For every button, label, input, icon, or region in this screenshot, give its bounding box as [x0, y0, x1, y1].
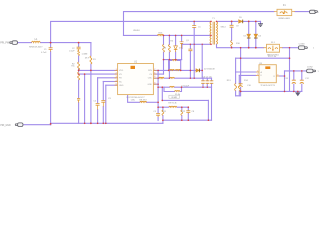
svg-text:C? 10uF: C? 10uF — [181, 86, 190, 88]
svg-text:8: 8 — [154, 76, 155, 78]
svg-text:CON3: CON3 — [299, 43, 306, 45]
svg-text:1: 1 — [318, 12, 320, 14]
svg-text:C4: C4 — [93, 101, 97, 103]
svg-text:XFMR: XFMR — [171, 97, 177, 99]
svg-text:CON2: CON2 — [307, 66, 314, 68]
svg-text:C3: C3 — [108, 98, 112, 100]
svg-text:R11: R11 — [162, 111, 167, 113]
svg-text:FL1: FL1 — [271, 42, 276, 44]
svg-text:PRI_GND: PRI_GND — [0, 125, 11, 127]
svg-text:D2 1N4148: D2 1N4148 — [204, 69, 215, 71]
svg-text:C12: C12 — [305, 78, 310, 80]
svg-text:SS14: SS14 — [220, 27, 226, 29]
svg-text:C10: C10 — [247, 85, 252, 87]
svg-text:1: 1 — [116, 69, 117, 71]
svg-text:C5: C5 — [198, 26, 201, 28]
svg-text:MH2029-301Y: MH2029-301Y — [29, 47, 43, 49]
svg-text:R4: R4 — [170, 41, 174, 43]
svg-text:C2: C2 — [72, 48, 76, 50]
svg-text:0.1uF: 0.1uF — [69, 51, 75, 53]
svg-text:9: 9 — [154, 83, 155, 85]
svg-text:GND: GND — [148, 84, 153, 86]
svg-text:95.3k: 95.3k — [175, 94, 181, 96]
svg-text:VBULK: VBULK — [133, 30, 140, 32]
svg-text:4.7uF: 4.7uF — [41, 52, 47, 54]
svg-text:GND: GND — [119, 85, 124, 87]
svg-text:R3: R3 — [163, 48, 167, 50]
svg-text:3: 3 — [116, 76, 117, 78]
svg-text:1: 1 — [318, 71, 320, 73]
svg-text:C5: C5 — [153, 111, 157, 113]
svg-text:C9: C9 — [236, 26, 240, 28]
svg-text:2: 2 — [116, 73, 117, 75]
svg-text:75k: 75k — [71, 65, 75, 67]
svg-text:DRV: DRV — [148, 70, 153, 72]
svg-text:R12: R12 — [181, 111, 186, 113]
svg-text:T1: T1 — [212, 18, 215, 20]
svg-text:F1: F1 — [283, 4, 286, 7]
svg-text:L1: L1 — [35, 38, 38, 41]
svg-text:7: 7 — [154, 69, 155, 71]
svg-text:4: 4 — [116, 80, 117, 82]
svg-text:CBC: CBC — [148, 78, 153, 80]
svg-text:C8: C8 — [192, 111, 196, 113]
svg-text:5: 5 — [116, 84, 117, 86]
svg-text:TLV431-SOT23: TLV431-SOT23 — [260, 85, 275, 87]
svg-text:PRI_PWR: PRI_PWR — [0, 43, 11, 45]
svg-text:C1: C1 — [44, 49, 48, 51]
svg-text:D5: D5 — [239, 17, 243, 19]
svg-text:D3: D3 — [244, 36, 248, 38]
svg-text:C11: C11 — [284, 78, 289, 80]
svg-text:1.00M: 1.00M — [82, 54, 88, 56]
svg-text:49.9: 49.9 — [85, 58, 90, 60]
svg-text:BSMD-0805: BSMD-0805 — [279, 18, 291, 20]
svg-text:R1: R1 — [93, 59, 97, 61]
svg-text:6: 6 — [154, 73, 155, 75]
svg-text:2: 2 — [257, 74, 258, 76]
svg-text:R10: R10 — [236, 43, 241, 45]
svg-text:R8 49.9: R8 49.9 — [139, 100, 147, 102]
svg-text:1: 1 — [257, 70, 258, 72]
svg-text:VDD: VDD — [119, 70, 124, 72]
svg-text:1: 1 — [313, 48, 315, 50]
svg-text:R15 1.0k: R15 1.0k — [268, 56, 277, 58]
svg-text:R13: R13 — [227, 80, 232, 82]
svg-text:Q1: Q1 — [186, 40, 190, 42]
svg-text:D4: D4 — [258, 36, 262, 38]
svg-text:3: 3 — [277, 74, 278, 76]
svg-text:U1: U1 — [134, 60, 138, 63]
svg-text:R9 95.3k: R9 95.3k — [168, 102, 177, 104]
svg-text:C6 C7 C8: C6 C7 C8 — [203, 76, 213, 78]
svg-text:CBC: CBC — [131, 100, 136, 102]
svg-text:R14: R14 — [244, 80, 249, 82]
